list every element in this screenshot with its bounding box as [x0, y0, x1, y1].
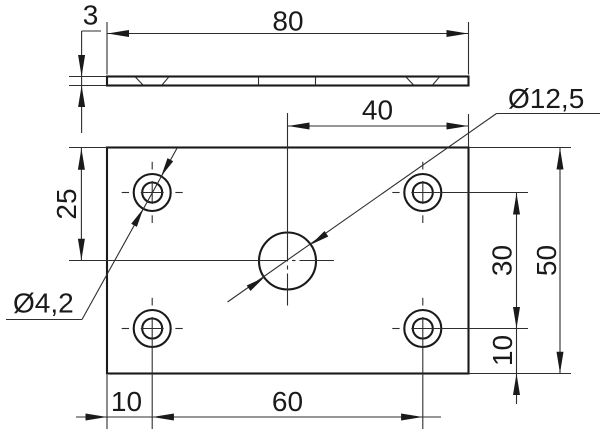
dim 3 extension line bottom	[69, 85, 107, 87]
dim 80 line	[107, 33, 469, 35]
hole bottom-left inner circle	[142, 319, 162, 339]
dim 40 extension line right	[468, 114, 470, 147]
dim 25 extension line top	[69, 147, 107, 149]
hole bottom-right centerlines	[392, 328, 399, 330]
dim 10 bottom arrow left	[86, 414, 108, 421]
side view countersink left hole	[136, 77, 143, 85]
hole top-right outer circle	[404, 174, 441, 211]
dim 50 arrow bottom	[557, 352, 564, 374]
svg-text:3: 3	[83, 0, 99, 31]
dim 10 right tail	[516, 374, 518, 405]
dim 10 right line	[516, 329, 518, 374]
dia 12,5 arrow lower	[247, 277, 265, 291]
dim 40 arrow right	[447, 123, 469, 130]
svg-text:80: 80	[272, 6, 303, 37]
svg-text:Ø4,2: Ø4,2	[13, 288, 74, 319]
dim 3 extension line top	[69, 76, 107, 78]
dim 40 line	[288, 125, 469, 127]
dim 50 arrow top	[557, 148, 564, 170]
dim 10 right arrow bottom	[513, 374, 520, 396]
dim 60 arrow right	[401, 414, 423, 421]
hole top-left inner circle	[142, 183, 162, 203]
dim 80 arrow right	[447, 30, 469, 37]
dia 12,5 arrow upper	[311, 231, 329, 245]
leader line for dia 12,5	[228, 114, 497, 303]
bottom extension line left edge	[106, 375, 108, 429]
hole top-left outer circle	[134, 174, 171, 211]
dia 4,2 shelf	[6, 319, 82, 321]
hole bottom-left centerlines	[122, 328, 129, 330]
big hole vertical centerline / dim 40 extension	[287, 113, 289, 262]
dim 30 / dim 10 shared arrow	[513, 307, 520, 329]
dia 12,5 shelf	[497, 113, 600, 115]
bottom dim line	[76, 416, 441, 418]
dim 40 arrow left	[288, 123, 310, 130]
dim 60 arrow left	[152, 414, 174, 421]
svg-text:Ø12,5: Ø12,5	[508, 83, 584, 114]
dim 50 extension line top	[469, 147, 572, 149]
svg-text:25: 25	[51, 188, 82, 219]
dim 80 extension line left	[106, 22, 108, 75]
dim 25 line	[80, 148, 82, 261]
dim 25 arrow bottom	[78, 239, 85, 261]
dim 80 extension line right	[468, 22, 470, 75]
dim 30 arrow top	[513, 193, 520, 215]
side view plate outline	[107, 77, 469, 86]
hole top-left centerlines	[122, 192, 129, 194]
dim 3 arrow lower	[78, 86, 85, 108]
dim 50 extension line bottom	[469, 373, 572, 375]
svg-text:30: 30	[487, 245, 518, 276]
dim 80 arrow left	[108, 30, 130, 37]
hole top-right inner circle	[413, 183, 433, 203]
hole bottom-left outer circle	[134, 310, 171, 347]
svg-text:50: 50	[531, 245, 562, 276]
hole bottom-right outer circle	[404, 310, 441, 347]
dia 4,2 arrow lower	[131, 209, 143, 227]
dim 3 arrow upper	[78, 55, 85, 77]
dim 30 line	[516, 193, 518, 329]
dim 3 line	[81, 31, 83, 133]
hole top-right centerlines	[392, 192, 399, 194]
big hole horizontal centerline / dim 25 extension	[69, 260, 288, 262]
dim 3 shelf	[82, 30, 101, 32]
leader line for dia 4,2	[82, 148, 177, 320]
svg-text:10: 10	[111, 386, 142, 417]
dia 4,2 arrow upper	[161, 158, 173, 176]
svg-text:40: 40	[362, 95, 393, 126]
hole bottom-right inner circle	[413, 319, 433, 339]
dim 50 line	[559, 148, 561, 374]
front view plate outline	[107, 148, 469, 374]
svg-text:10: 10	[487, 335, 518, 366]
svg-text:60: 60	[272, 386, 303, 417]
side view countersink right hole	[406, 77, 413, 85]
dim 25 arrow top	[78, 148, 85, 170]
big hole circle	[259, 233, 316, 290]
side view big hole edge lines	[258, 77, 260, 86]
